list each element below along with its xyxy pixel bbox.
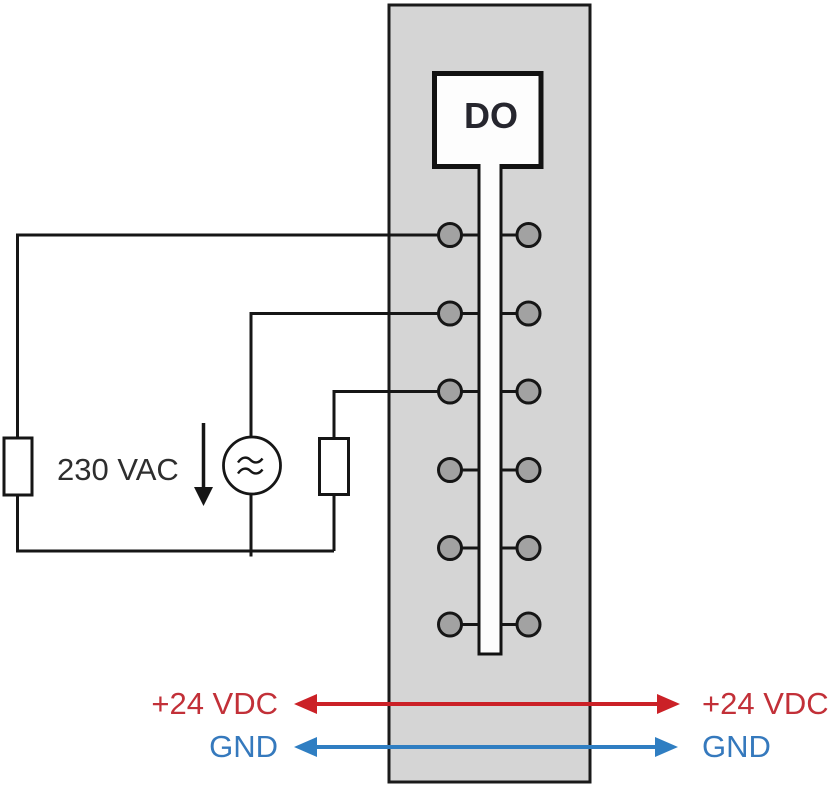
+24 VDC rail (red)	[294, 694, 680, 714]
load L1	[4, 438, 32, 495]
terminal 4	[439, 459, 462, 482]
AC source V1	[224, 437, 281, 494]
terminal 8	[517, 302, 540, 325]
internal bus	[478, 160, 503, 656]
wire row1 horizontal to terminal 1	[18, 234, 451, 237]
GND rail (blue)	[294, 737, 678, 757]
svg-text:+24 VDC: +24 VDC	[151, 686, 278, 721]
wire bottom horizontal	[16, 550, 334, 553]
label GND right	[702, 729, 771, 764]
wire row3 horizontal to terminal 3	[334, 390, 450, 393]
wire row2 horizontal to terminal 2	[251, 312, 450, 315]
terminal 12	[517, 613, 540, 636]
terminal 9	[517, 380, 540, 403]
label 230 VAC	[57, 452, 179, 487]
svg-text:DO: DO	[464, 95, 518, 136]
terminal 1	[439, 224, 462, 247]
svg-text:230 VAC: 230 VAC	[57, 452, 179, 487]
terminal 11	[517, 537, 540, 560]
DO label	[464, 95, 518, 136]
label GND left	[209, 729, 278, 764]
terminal 2	[439, 302, 462, 325]
wire load L2 bottom	[333, 494, 336, 551]
current direction arrow	[194, 423, 213, 506]
wire left vertical upper	[16, 234, 19, 438]
wire load L2 top	[333, 390, 336, 439]
terminal 6	[439, 613, 462, 636]
module housing	[389, 5, 590, 782]
DO block	[435, 74, 542, 167]
terminal 5	[439, 537, 462, 560]
label +24 VDC left	[151, 686, 278, 721]
svg-text:+24 VDC: +24 VDC	[702, 686, 829, 721]
wire left vertical lower	[16, 496, 19, 551]
terminal 3	[439, 380, 462, 403]
label +24 VDC right	[702, 686, 829, 721]
terminal stub wires right column	[501, 235, 529, 625]
svg-text:GND: GND	[209, 729, 278, 764]
wire AC source bottom	[250, 494, 253, 557]
svg-text:GND: GND	[702, 729, 771, 764]
load L2	[320, 439, 349, 495]
terminal stub wires left column	[450, 235, 479, 625]
wire AC source top	[250, 312, 253, 437]
terminal 10	[517, 459, 540, 482]
terminal 7	[517, 224, 540, 247]
